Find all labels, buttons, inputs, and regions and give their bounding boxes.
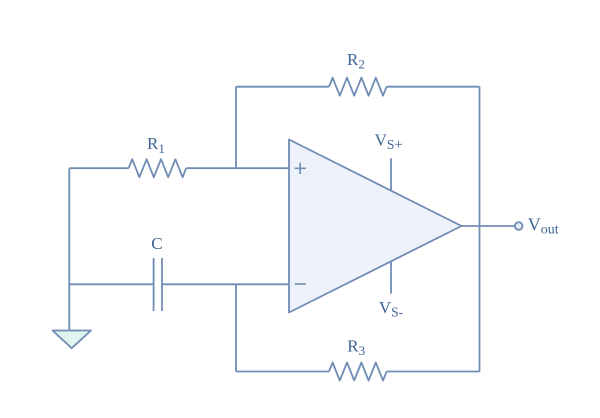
resistor R2 bbox=[329, 78, 387, 96]
capacitor C bbox=[154, 258, 162, 311]
wire: R1 to op-amp + input bbox=[186, 167, 289, 169]
wire: from − input node down to R3 bbox=[235, 284, 237, 371]
output terminal circle bbox=[515, 222, 523, 230]
svg-text:R2: R2 bbox=[347, 50, 365, 72]
op-amp inverting (−) input marker bbox=[295, 283, 306, 285]
svg-text:VS-: VS- bbox=[379, 298, 404, 319]
wire: top feedback, right segment bbox=[387, 86, 480, 88]
wire: top feedback, left segment bbox=[236, 86, 329, 88]
svg-text:R3: R3 bbox=[347, 336, 365, 358]
wire: op-amp output bbox=[462, 225, 515, 227]
wire: left branch down to ground bbox=[68, 168, 70, 330]
resistor R1 bbox=[129, 159, 187, 177]
wire: left node to capacitor C bbox=[69, 283, 153, 285]
pin VS- bbox=[390, 261, 392, 293]
resistor R3 bbox=[329, 363, 387, 381]
svg-text:C: C bbox=[151, 234, 162, 253]
svg-text:Vout: Vout bbox=[528, 215, 559, 238]
wire: bottom feedback, left segment bbox=[236, 371, 329, 373]
svg-text:VS+: VS+ bbox=[375, 131, 403, 153]
op-amp non-inverting (+) input marker bbox=[295, 163, 306, 174]
wire: bottom feedback, right segment bbox=[387, 371, 480, 373]
op-amp U1 bbox=[289, 140, 462, 313]
wire: right feedback branch vertical bbox=[479, 87, 481, 372]
pin VS+ bbox=[390, 158, 392, 191]
ground bbox=[53, 331, 92, 349]
wire: capacitor to op-amp − input bbox=[162, 283, 289, 285]
wire: input to R1 bbox=[69, 167, 128, 169]
svg-text:R1: R1 bbox=[147, 134, 165, 156]
wire: from + input node up to R2 bbox=[235, 87, 237, 169]
